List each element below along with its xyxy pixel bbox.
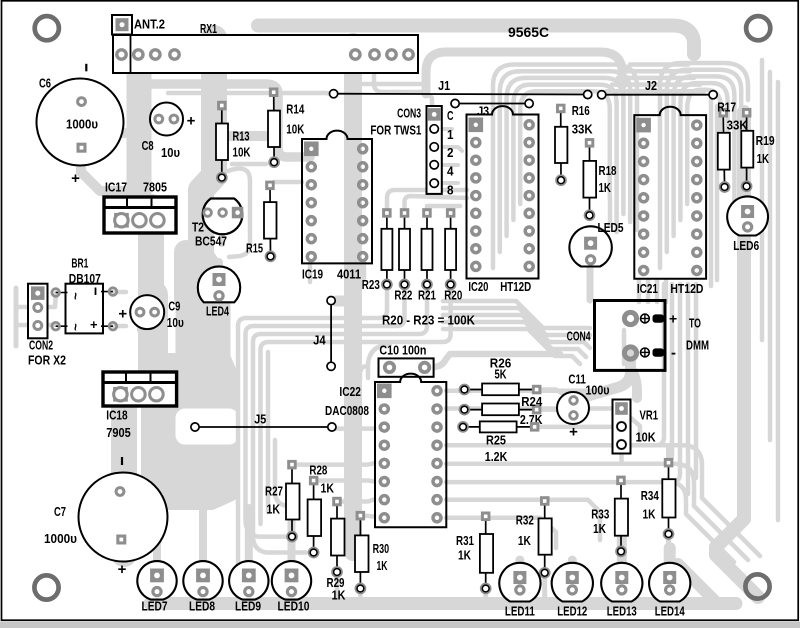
wire	[246, 286, 405, 537]
wire	[406, 60, 411, 70]
svg-text:R20 - R23 = 100K: R20 - R23 = 100K	[382, 312, 476, 327]
wire	[111, 404, 137, 554]
svg-text:R23: R23	[362, 277, 380, 292]
svg-text:R15: R15	[246, 241, 263, 256]
wire	[14, 288, 19, 346]
svg-text:R25: R25	[486, 433, 506, 448]
svg-text:R24: R24	[521, 394, 543, 409]
svg-text:R34: R34	[641, 488, 660, 503]
capacitor C8	[150, 103, 196, 136]
svg-text:R14: R14	[286, 102, 305, 117]
wire	[660, 63, 748, 268]
wire	[288, 508, 296, 574]
wire	[274, 180, 302, 185]
wire	[694, 284, 699, 478]
svg-text:1: 1	[447, 127, 454, 142]
wire	[137, 318, 143, 330]
wire	[443, 315, 590, 348]
resistor R24	[460, 404, 541, 416]
svg-text:7805: 7805	[143, 180, 167, 195]
wire	[674, 76, 735, 236]
svg-text:+: +	[118, 306, 127, 323]
svg-text:1K: 1K	[593, 521, 606, 536]
resistor R13	[216, 101, 228, 182]
svg-text:R31: R31	[456, 533, 474, 548]
wire	[368, 344, 390, 378]
wire	[709, 100, 714, 286]
wire	[433, 354, 560, 367]
svg-text:LED9: LED9	[235, 598, 261, 613]
svg-text:1000υ: 1000υ	[66, 117, 98, 132]
wire	[151, 318, 157, 330]
wire	[443, 329, 580, 364]
svg-text:DB107: DB107	[69, 271, 101, 286]
wire	[127, 48, 152, 198]
wire	[619, 560, 624, 570]
wire	[446, 518, 556, 548]
wire	[154, 590, 161, 604]
svg-text:LED6: LED6	[733, 238, 759, 253]
svg-text:IC21: IC21	[637, 281, 658, 296]
wire	[341, 500, 374, 502]
wire	[617, 520, 627, 576]
wire	[535, 425, 612, 430]
wire	[614, 206, 619, 232]
wire	[81, 148, 126, 191]
wire	[149, 368, 179, 452]
svg-text:DAC0808: DAC0808	[325, 403, 369, 418]
svg-text:HT12D: HT12D	[500, 279, 531, 294]
svg-text:10K: 10K	[636, 430, 657, 445]
wire	[618, 596, 626, 606]
svg-text:4011: 4011	[337, 267, 361, 282]
wire	[446, 443, 650, 448]
wire	[405, 196, 468, 213]
svg-text:DMM: DMM	[686, 337, 709, 352]
svg-text:8: 8	[447, 182, 454, 197]
wire	[619, 551, 624, 560]
wire	[38, 323, 55, 328]
wire	[656, 464, 748, 560]
wire	[612, 82, 700, 87]
svg-text:10υ: 10υ	[167, 315, 184, 330]
wire	[443, 181, 458, 185]
svg-text:IC19: IC19	[302, 267, 323, 282]
resistor R20	[445, 208, 456, 288]
svg-text:~: ~	[68, 323, 83, 331]
svg-text:C6: C6	[39, 76, 51, 91]
wire	[113, 324, 126, 329]
wire	[153, 508, 161, 574]
wire	[443, 322, 586, 357]
svg-text:TO: TO	[689, 316, 701, 331]
antenna pad ANT.2	[112, 15, 132, 35]
svg-text:LED7: LED7	[142, 598, 168, 613]
svg-text:R19: R19	[756, 133, 775, 148]
board edge strip	[0, 622, 800, 629]
trimmer VR1	[613, 400, 631, 454]
RF module RX1	[113, 35, 418, 73]
wire	[744, 230, 751, 252]
wire	[446, 480, 664, 485]
wire	[174, 252, 198, 300]
wire	[650, 445, 760, 556]
svg-text:FOR X2: FOR X2	[28, 353, 66, 368]
wire	[261, 286, 451, 524]
svg-text:J1: J1	[438, 78, 450, 93]
svg-text:BR1: BR1	[71, 255, 88, 270]
wire	[500, 71, 630, 252]
wire	[238, 286, 387, 598]
svg-text:R16: R16	[572, 103, 590, 118]
wire	[446, 409, 640, 441]
resistor R14	[268, 88, 280, 167]
wire	[443, 301, 590, 328]
svg-text:IC17: IC17	[105, 180, 127, 195]
wire	[138, 207, 164, 300]
svg-text:RX1: RX1	[200, 21, 217, 36]
wire	[493, 65, 637, 269]
wire	[608, 198, 613, 226]
wire	[150, 597, 736, 610]
wire	[200, 590, 207, 604]
wire	[687, 90, 721, 204]
wire	[245, 590, 252, 604]
wire	[666, 534, 671, 560]
wire	[666, 596, 674, 606]
wire	[308, 263, 313, 282]
svg-text:1.2K: 1.2K	[485, 449, 508, 464]
resistor R30	[355, 511, 369, 593]
wire	[655, 280, 660, 302]
IC IC21	[634, 107, 706, 279]
wire	[426, 52, 622, 94]
capacitor C9	[118, 295, 164, 329]
wire	[138, 295, 168, 372]
svg-text:IC18: IC18	[106, 407, 127, 422]
svg-text:R22: R22	[394, 287, 412, 302]
wire	[275, 440, 298, 508]
wire	[296, 463, 374, 464]
wire	[374, 60, 432, 104]
LED LED14	[649, 563, 690, 602]
wire	[446, 500, 600, 540]
wire jumper J2	[598, 91, 718, 99]
resistor R29	[331, 497, 345, 576]
wire	[288, 590, 295, 604]
wire	[443, 163, 458, 167]
svg-text:R27: R27	[265, 484, 283, 499]
wire	[360, 366, 368, 380]
wire	[427, 206, 460, 213]
svg-text:LED14: LED14	[655, 603, 686, 618]
svg-text:1K: 1K	[643, 506, 656, 521]
svg-text:+: +	[90, 317, 98, 332]
wire	[82, 102, 126, 133]
wire	[142, 84, 310, 157]
svg-text:CON3: CON3	[397, 105, 421, 120]
svg-text:CON4: CON4	[567, 328, 592, 343]
svg-text:1K: 1K	[518, 533, 531, 548]
wire	[364, 513, 374, 518]
svg-text:7905: 7905	[106, 425, 131, 440]
svg-text:LED5: LED5	[598, 220, 624, 235]
svg-text:LED8: LED8	[189, 598, 215, 613]
wire	[318, 478, 374, 483]
svg-text:10υ: 10υ	[161, 145, 180, 160]
resistor R15	[264, 181, 277, 261]
resistor R22	[399, 208, 410, 288]
LED LED7	[137, 561, 176, 599]
svg-text:1K: 1K	[377, 558, 388, 573]
wire	[743, 238, 749, 296]
wire	[358, 592, 363, 600]
wire	[630, 62, 688, 67]
white pocket around J5 left end	[175, 408, 239, 445]
wire	[336, 426, 374, 431]
wire	[16, 305, 32, 310]
svg-text:ANT.2: ANT.2	[134, 17, 165, 32]
voltage regulator IC17	[104, 197, 176, 233]
svg-text:HT12D: HT12D	[670, 281, 703, 296]
svg-text:33K: 33K	[572, 121, 594, 136]
wire	[335, 576, 340, 600]
wire	[516, 596, 524, 606]
wire	[686, 284, 691, 494]
wire	[336, 292, 353, 301]
wire	[667, 70, 741, 252]
wire	[176, 296, 230, 424]
svg-text:C10 100n: C10 100n	[379, 342, 426, 357]
wire	[507, 78, 624, 236]
wire	[362, 263, 367, 278]
svg-text:+: +	[71, 170, 80, 187]
wire	[650, 284, 664, 445]
svg-text:C7: C7	[54, 504, 66, 519]
LED LED10	[272, 561, 311, 599]
svg-text:LED11: LED11	[505, 603, 535, 618]
svg-text:+: +	[118, 561, 127, 578]
LED LED13	[601, 563, 642, 602]
connector CON3	[427, 106, 442, 194]
wire	[664, 548, 676, 576]
LED LED4	[198, 266, 240, 302]
resistor R28	[308, 476, 322, 557]
resistor R16	[555, 104, 567, 185]
wire	[622, 330, 627, 364]
capacitor C6	[37, 64, 124, 187]
svg-text:~: ~	[68, 292, 83, 300]
wire	[118, 32, 127, 40]
svg-text:IC22: IC22	[339, 384, 361, 399]
wire	[446, 461, 656, 466]
wire	[245, 508, 253, 574]
svg-text:+: +	[669, 311, 677, 327]
LED LED12	[552, 563, 593, 602]
wire	[483, 588, 488, 600]
terminal block CON4	[595, 301, 678, 371]
svg-text:C11: C11	[568, 372, 586, 387]
svg-text:LED12: LED12	[557, 603, 587, 618]
wire	[232, 162, 266, 167]
svg-text:5K: 5K	[495, 366, 507, 381]
wire	[228, 169, 250, 257]
wire	[631, 368, 638, 398]
svg-text:R20: R20	[444, 287, 462, 302]
wire	[624, 69, 690, 74]
LED LED5	[569, 226, 611, 266]
wire	[448, 208, 453, 213]
svg-text:IC20: IC20	[468, 279, 488, 294]
wire	[680, 83, 727, 220]
resistor R34	[662, 458, 675, 538]
voltage regulator IC18	[103, 372, 177, 406]
wire	[16, 323, 32, 328]
wire	[387, 190, 467, 213]
svg-text:R28: R28	[309, 463, 327, 478]
wire	[618, 76, 694, 81]
mounting hole	[745, 574, 769, 598]
svg-text:C8: C8	[142, 138, 154, 153]
svg-text:+: +	[569, 423, 578, 440]
IC IC20	[467, 106, 539, 278]
wire	[520, 91, 610, 204]
capacitor C10	[379, 358, 434, 376]
wire	[258, 26, 694, 55]
svg-text:10K: 10K	[286, 122, 304, 137]
wire	[446, 389, 600, 394]
mounting hole	[35, 16, 59, 40]
svg-text:1K: 1K	[332, 588, 346, 603]
wire jumper J1	[330, 90, 592, 99]
svg-text:R17: R17	[717, 99, 736, 114]
mounting hole	[34, 575, 58, 599]
wire	[226, 131, 266, 141]
resistor R33	[615, 476, 628, 556]
svg-text:R33: R33	[591, 506, 609, 521]
wire	[587, 262, 594, 300]
wire	[619, 450, 624, 462]
wire	[215, 262, 223, 276]
svg-text:10K: 10K	[233, 144, 251, 159]
svg-text:R13: R13	[233, 129, 250, 144]
svg-text:1K: 1K	[757, 151, 770, 166]
svg-text:VR1: VR1	[640, 408, 659, 423]
svg-text:CON2: CON2	[29, 338, 53, 353]
IC IC22	[375, 374, 446, 528]
wire	[38, 293, 56, 307]
svg-text:C9: C9	[168, 299, 180, 314]
svg-text:1000υ: 1000υ	[44, 531, 77, 546]
resistor R26	[460, 384, 541, 396]
transistor T2	[203, 199, 244, 235]
svg-text:1K: 1K	[267, 502, 281, 517]
wire	[715, 106, 720, 280]
svg-text:T2: T2	[192, 220, 204, 235]
LED LED11	[499, 563, 540, 602]
wire	[113, 290, 126, 295]
svg-text:4: 4	[447, 164, 454, 179]
wire	[443, 308, 590, 335]
resistor R32	[539, 496, 552, 577]
resistor R19	[741, 108, 753, 191]
resistor R31	[480, 512, 493, 593]
wire	[568, 596, 576, 606]
wire	[666, 448, 671, 458]
svg-text:LED10: LED10	[278, 598, 310, 613]
wire	[168, 93, 333, 94]
wire	[664, 284, 680, 482]
svg-text:1K: 1K	[321, 481, 335, 496]
wire	[776, 82, 781, 520]
svg-text:LED4: LED4	[206, 303, 230, 318]
svg-text:R18: R18	[599, 163, 617, 178]
svg-text:R21: R21	[418, 287, 436, 302]
svg-text:1K: 1K	[458, 548, 471, 563]
wire	[443, 127, 452, 131]
svg-text:BC547: BC547	[195, 234, 227, 249]
wire	[146, 358, 232, 505]
wire	[390, 60, 395, 70]
wire	[513, 85, 616, 220]
svg-text:1K: 1K	[599, 180, 612, 195]
svg-text:C: C	[447, 108, 454, 123]
wire	[768, 72, 773, 440]
svg-text:J5: J5	[254, 411, 266, 426]
wire	[760, 60, 765, 340]
svg-text:R32: R32	[516, 513, 534, 528]
capacitor C7	[79, 457, 168, 578]
wire	[515, 560, 524, 575]
wire	[344, 42, 362, 552]
svg-text:9565C: 9565C	[508, 24, 549, 40]
wire	[355, 60, 420, 84]
wire	[637, 280, 642, 302]
wire	[215, 298, 221, 314]
capacitor C11	[557, 392, 589, 440]
wire	[207, 220, 215, 262]
wire	[253, 286, 427, 553]
wire	[678, 564, 714, 600]
wire	[664, 280, 669, 302]
wire jumper J4	[327, 297, 335, 371]
IC IC19	[302, 131, 372, 264]
wire	[219, 228, 225, 244]
resistor R17	[718, 108, 730, 191]
wire	[201, 38, 214, 372]
svg-text:100υ: 100υ	[586, 382, 610, 397]
svg-text:J2: J2	[645, 78, 657, 93]
wire jumper J3	[451, 99, 533, 107]
resistor R21	[422, 208, 433, 288]
svg-text:LED13: LED13	[607, 603, 637, 618]
svg-text:R30: R30	[373, 541, 390, 556]
mounting hole	[746, 16, 770, 40]
resistor R23	[381, 208, 392, 288]
wire	[576, 352, 631, 404]
wire	[542, 572, 547, 600]
svg-text:2: 2	[447, 145, 454, 160]
LED LED6	[727, 196, 768, 235]
connector CON2	[28, 284, 48, 339]
wire	[656, 284, 672, 464]
LED LED8	[183, 561, 222, 599]
wire	[443, 147, 462, 151]
wire	[716, 112, 758, 597]
wire	[568, 560, 577, 575]
svg-text:-: -	[671, 345, 676, 362]
resistor R18	[583, 138, 596, 219]
